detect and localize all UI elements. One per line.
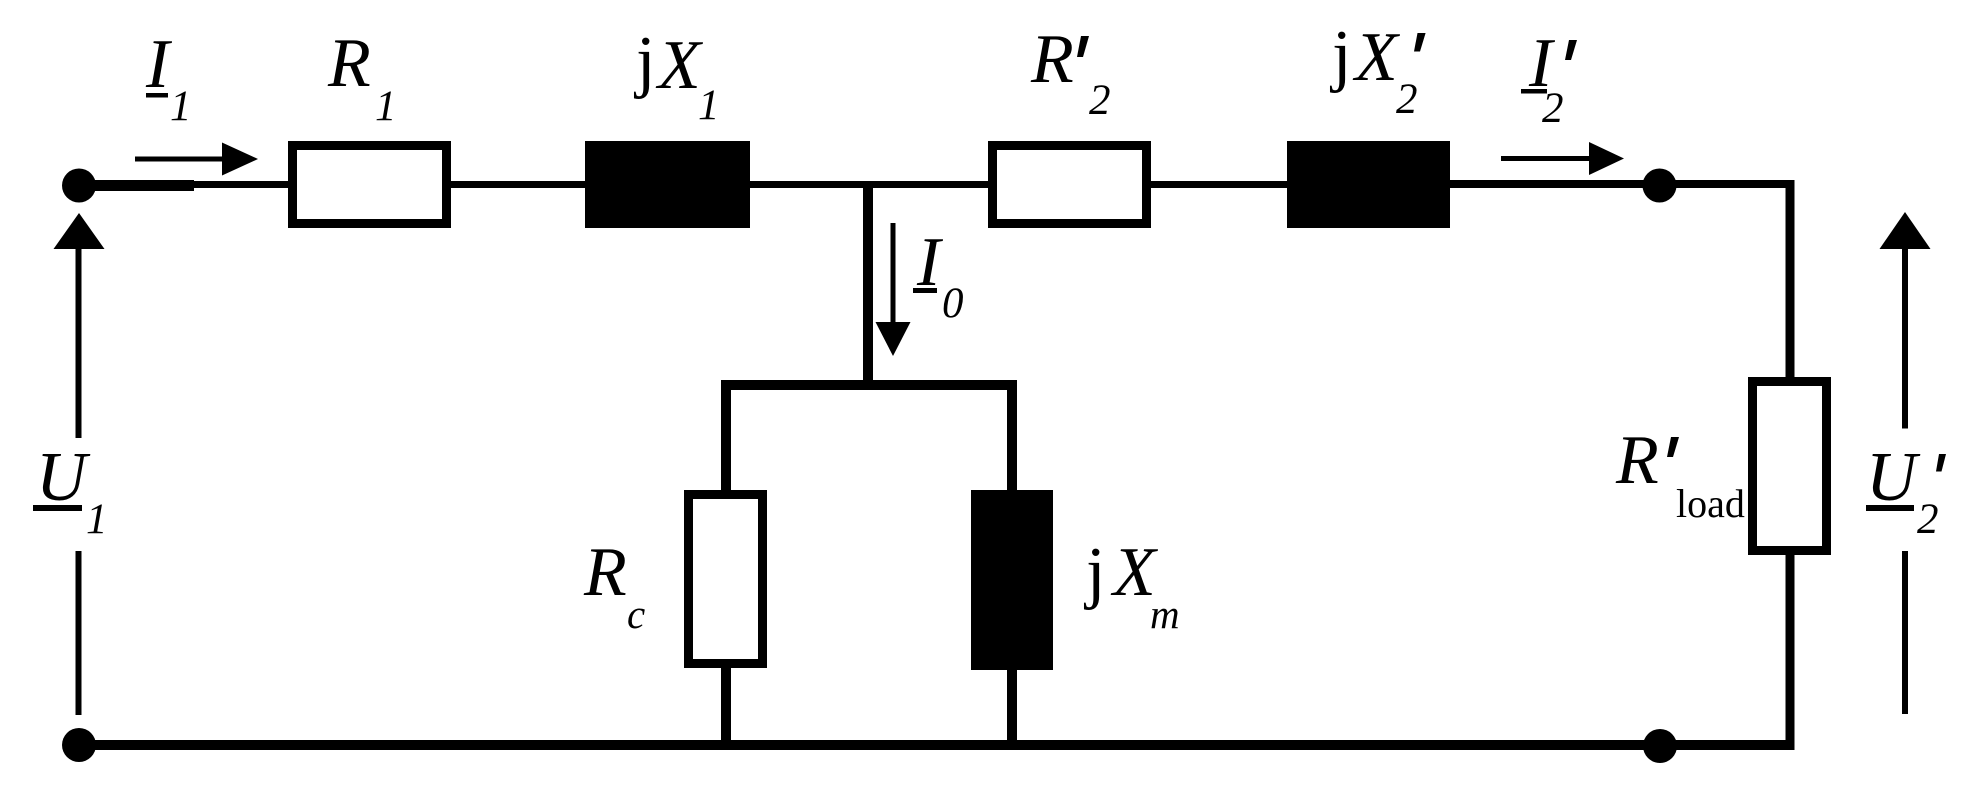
svg-text:j: j — [1329, 17, 1351, 94]
svg-text:R: R — [327, 25, 371, 102]
svg-text:2: 2 — [1396, 76, 1418, 123]
label U1 — [33, 439, 108, 543]
wire: bottom rail — [79, 740, 1795, 750]
resistor R'load — [1753, 382, 1827, 551]
label I0 — [913, 224, 964, 327]
label U2' — [1866, 439, 1946, 543]
label R'load — [1615, 422, 1745, 526]
wire: junction vertical down to magnetizing branch — [863, 185, 873, 390]
wire: R1 to jX1 — [447, 181, 589, 188]
svg-text:R: R — [1030, 21, 1074, 98]
node: top-right terminal dot — [1643, 169, 1677, 203]
voltage arrow U2' — [1880, 212, 1931, 714]
wire: T-bar of magnetizing branch — [721, 380, 1017, 390]
svg-text:1: 1 — [698, 82, 720, 129]
node: bottom-right terminal dot — [1643, 729, 1677, 763]
label jX2' — [1329, 17, 1426, 123]
inductor jX1 (black box) — [585, 141, 750, 228]
voltage arrow U1 — [54, 213, 105, 715]
current arrow I0 — [876, 223, 911, 356]
wire: R'2 to jX2' — [1147, 181, 1291, 188]
svg-text:I: I — [145, 26, 173, 103]
wire: left branch down to Rc — [721, 380, 731, 494]
current arrow I2' — [1501, 142, 1624, 175]
svg-text:j: j — [1083, 534, 1105, 611]
wire: top-left from terminal to R1 — [79, 181, 292, 188]
svg-text:j: j — [633, 23, 655, 100]
resistor R1 — [293, 146, 447, 224]
resistor R'2 — [993, 146, 1147, 224]
label jX1 — [633, 23, 720, 129]
svg-text:1: 1 — [170, 83, 192, 130]
svg-text:R: R — [583, 534, 627, 611]
svg-text:m: m — [1150, 591, 1180, 637]
svg-text:1: 1 — [86, 496, 108, 543]
svg-text:load: load — [1676, 481, 1745, 526]
wire: right vertical down to load — [1786, 180, 1795, 382]
wire: jX1 to R'2 with junction — [746, 181, 992, 188]
svg-text:2: 2 — [1917, 496, 1939, 543]
svg-text:R: R — [1615, 422, 1659, 499]
svg-text:1: 1 — [375, 83, 397, 130]
label R'2 — [1030, 21, 1111, 124]
svg-text:2: 2 — [1089, 77, 1111, 124]
svg-text:U: U — [36, 439, 91, 516]
label I1 — [145, 26, 192, 130]
node: bottom-left terminal dot — [62, 728, 96, 762]
label jXm — [1083, 534, 1180, 637]
inductor jXm (black box) — [971, 490, 1053, 670]
label I2' — [1521, 25, 1577, 132]
svg-text:U: U — [1866, 439, 1921, 516]
node: top-left terminal dot — [62, 169, 96, 203]
wire: jX2' to output corner (passes top-right terminal) — [1446, 180, 1795, 188]
svg-text:X: X — [655, 27, 704, 104]
current arrow I1 — [135, 143, 258, 176]
svg-text:c: c — [627, 591, 645, 637]
svg-text:X: X — [1352, 19, 1401, 96]
svg-text:0: 0 — [942, 280, 964, 327]
wire: right branch down to jXm — [1007, 380, 1017, 494]
wire: below Rc to bottom rail — [721, 664, 731, 749]
label Rc — [583, 534, 645, 637]
wire: below R'load to bottom rail — [1786, 550, 1795, 750]
wire: below jXm to bottom rail — [1007, 666, 1017, 749]
inductor jX2' (black box) — [1287, 141, 1450, 228]
label R1 — [327, 25, 397, 130]
svg-text:2: 2 — [1542, 85, 1564, 132]
resistor Rc — [689, 495, 763, 664]
